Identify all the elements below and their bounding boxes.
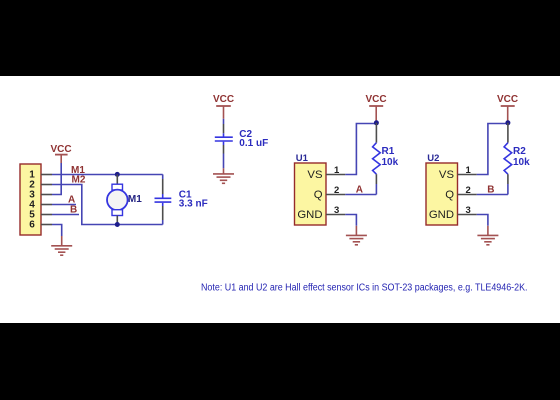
wire C2 to ground [223,154,225,169]
svg-text:R1: R1 [382,146,395,157]
wire net M2 (pin 2 down and along bottom to C1) [52,185,163,225]
ground symbol at connector [51,236,72,255]
svg-text:1: 1 [466,165,472,176]
svg-text:B: B [70,205,77,216]
connector pin 3 stub [41,194,52,196]
wire VCC to connector pin 3 [52,163,61,195]
wire R1 bottom to net A [375,184,377,195]
connector pin 2 stub [41,184,52,186]
U2 pin 2 stub [458,194,477,196]
connector pin 5 stub [41,214,52,216]
resistor R1 zigzag [373,143,381,175]
svg-text:VCC: VCC [365,94,386,105]
VCC supply symbol at C2 [216,106,231,119]
connector pin 4 stub [41,204,52,206]
capacitor C2 plates [215,133,233,145]
U1 pin 1 stub [326,174,345,176]
wire net B stub at connector pin 5 [52,214,79,216]
ground symbol at C2 [213,168,234,183]
IC U2 body [426,163,458,225]
svg-text:2: 2 [466,185,471,196]
VCC supply symbol at connector [55,155,68,163]
svg-text:GND: GND [297,209,322,221]
capacitor C2 bottom pin [223,145,225,154]
svg-text:VCC: VCC [213,94,234,105]
resistor R1 bottom pin [375,174,377,184]
svg-text:3: 3 [334,205,339,216]
svg-text:3: 3 [466,205,471,216]
resistor R2 bottom pin [507,174,509,184]
svg-text:A: A [356,185,363,196]
svg-text:VCC: VCC [497,94,518,105]
svg-text:2: 2 [334,185,339,196]
wire net M1 (pin 1 to C1) [52,174,163,176]
junction dot motor top [115,172,120,177]
wire U1 pin 3 to ground [345,215,356,226]
capacitor C1 bottom lead [162,220,164,225]
connector pin 1 stub [41,174,52,176]
svg-text:Q: Q [314,189,323,201]
svg-text:3.3 nF: 3.3 nF [179,199,208,210]
svg-text:VS: VS [439,169,455,181]
connector JP1 body [20,164,41,235]
svg-text:10k: 10k [382,157,399,168]
wire VCC to C2 [223,119,225,124]
wire R2 bottom to net B [507,184,509,195]
motor M1 symbol [107,184,128,215]
svg-text:VCC: VCC [50,144,71,155]
junction dot motor bottom [115,222,120,227]
svg-text:1: 1 [334,165,340,176]
junction dot VCC/R1 [374,120,379,125]
U2 pin 1 stub [458,174,477,176]
motor M1 top pin [116,174,118,184]
wire U1 pin 1 to VCC junction [345,124,376,175]
U1 pin 3 stub [326,214,345,216]
motor M1 bottom pin [116,216,118,225]
capacitor C2 top pin [223,124,225,133]
ground symbol at U2 [477,226,498,245]
junction dot VCC/R2 [505,120,510,125]
resistor R2 zigzag [504,143,512,175]
U1 pin 2 stub [326,194,345,196]
wire connector pin 6 to ground [52,225,62,237]
svg-text:R2: R2 [513,146,526,157]
svg-text:Note: U1 and U2 are Hall effec: Note: U1 and U2 are Hall effect sensor I… [201,282,528,293]
svg-text:GND: GND [429,209,454,221]
svg-text:M2: M2 [72,175,86,186]
wire net B (U2 pin 2 to R2) [477,194,508,196]
svg-text:B: B [487,185,494,196]
resistor R2 top pin [507,123,509,143]
capacitor C1 bottom pin [162,206,164,220]
svg-text:Q: Q [445,189,454,201]
capacitor C1 plates [155,194,172,206]
capacitor C1 top pin [162,179,164,194]
wire net A (U1 pin 2 to R1) [345,194,376,196]
wire U2 pin 3 to ground [477,215,488,226]
resistor R1 top pin [375,123,377,143]
ground symbol at U1 [346,226,367,245]
svg-text:6: 6 [29,220,35,231]
VCC supply symbol at R2 [501,106,515,121]
connector pin 6 stub [41,224,52,226]
IC U1 body [295,163,327,225]
svg-text:M1: M1 [128,194,142,205]
svg-text:VS: VS [307,169,323,181]
U2 pin 3 stub [458,214,477,216]
capacitor C1 top lead [162,174,164,179]
VCC supply symbol at R1 [369,106,383,121]
svg-text:0.1 uF: 0.1 uF [239,138,268,149]
wire net A stub at connector pin 4 [52,204,76,206]
svg-text:10k: 10k [513,157,530,168]
wire U2 pin 1 to VCC junction [477,124,508,175]
